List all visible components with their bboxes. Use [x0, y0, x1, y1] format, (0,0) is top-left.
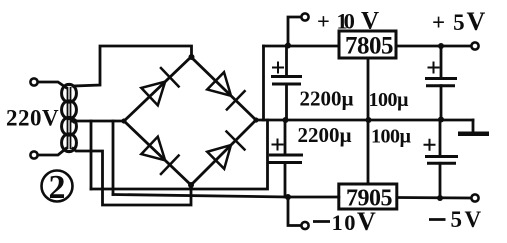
wire +10V terminal branch [288, 17, 301, 46]
svg-text:+10: +10 [317, 9, 355, 34]
svg-text:220V: 220V [6, 106, 59, 131]
node: mid rail regulator pin junction [366, 117, 372, 123]
wire capacitor C4 column [439, 120, 442, 199]
terminal: +5V output [471, 42, 478, 49]
terminal: -10V input [301, 222, 308, 229]
regulator U2 7905 box [339, 184, 397, 209]
svg-text:10: 10 [332, 210, 356, 235]
svg-text:2200µ: 2200µ [300, 87, 354, 111]
diode D4 bottom-right [207, 131, 245, 169]
bridge rectifier diamond wires [124, 57, 256, 185]
node: bridge right vertex [253, 117, 258, 122]
ground symbol [458, 132, 489, 137]
capacitor C1 2200u plates [271, 77, 302, 85]
terminal: AC input bottom [30, 151, 37, 158]
wire bridge minus vertex riser [112, 121, 115, 195]
node: bridge bottom vertex [188, 182, 194, 188]
svg-text:5V: 5V [451, 207, 482, 232]
svg-text:100µ: 100µ [369, 89, 410, 111]
wire center-tap riser [90, 121, 93, 189]
svg-text:2200µ: 2200µ [298, 123, 352, 147]
wire 0V mid rail [256, 119, 473, 122]
wire secondary bottom to bridge AC bottom [73, 149, 191, 206]
terminal: +10V input [301, 13, 308, 20]
wire +10V rail right segment (7805 output to +5V terminal) [396, 45, 470, 48]
wire capacitor C2 column [284, 120, 287, 197]
transformer T1 core [68, 87, 71, 149]
wire primary bottom lead [39, 149, 66, 156]
node: mid rail C2 junction [283, 117, 289, 123]
node: +5V junction [438, 43, 444, 49]
node: +10V terminal junction [285, 43, 291, 49]
transformer T1 secondary winding [62, 84, 71, 151]
wire 7805 ground pin [367, 58, 370, 120]
capacitor C2 plus sign [272, 139, 284, 151]
diode D3 bottom-left [141, 137, 179, 175]
wire 7905 ground pin [367, 120, 370, 184]
label -5V [429, 218, 446, 221]
wire center tap line [72, 120, 124, 123]
wire -10V rail right segment [397, 196, 470, 199]
figure number circled 2 [42, 171, 73, 202]
wire capacitor C1 column [285, 46, 288, 121]
node: bridge top vertex [189, 54, 195, 60]
node: -10V terminal junction [285, 194, 291, 200]
svg-text:V: V [467, 7, 486, 36]
wire primary top lead [39, 82, 66, 88]
wire riser from bridge + vertex to +10V rail [262, 46, 265, 120]
terminal: -5V output [471, 194, 478, 201]
node: transformer center tap [72, 118, 77, 123]
capacitor C3 100u plates [425, 79, 457, 86]
diode D1 top-left [141, 67, 179, 105]
wire secondary top to bridge AC top [73, 46, 192, 86]
terminal: AC input top [30, 78, 37, 85]
svg-text:7805: 7805 [345, 33, 393, 60]
node: mid rail C3/C4 junction [438, 117, 444, 123]
diode D2 top-right [207, 72, 245, 110]
capacitor C4 100u plates [425, 157, 458, 164]
wire capacitor C3 column [440, 46, 443, 120]
svg-text:100µ: 100µ [371, 126, 412, 148]
transformer T1 primary winding [67, 84, 76, 151]
capacitor C1 plus sign [272, 62, 284, 74]
svg-text:V: V [361, 8, 379, 35]
capacitor C4 plus sign [424, 139, 436, 151]
svg-text:V: V [357, 207, 376, 236]
wire ground drop [472, 120, 475, 132]
node: bridge left vertex [121, 118, 126, 123]
wire -10V rail left segment [113, 195, 339, 198]
node: -5V junction [437, 195, 443, 201]
capacitor C2 2200u plates [268, 155, 303, 163]
label -10V [313, 220, 330, 223]
svg-text:2: 2 [49, 169, 66, 206]
capacitor C3 plus sign [428, 62, 440, 74]
regulator U1 7805 box [339, 31, 396, 58]
wire +10V rail left segment [264, 45, 340, 48]
wire -10V terminal branch [288, 197, 301, 226]
wire center-tap run to mid rail [91, 120, 268, 189]
